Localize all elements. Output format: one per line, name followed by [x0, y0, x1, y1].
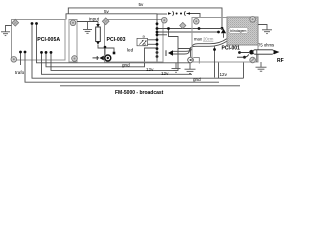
bus node y39.8 [156, 38, 159, 41]
wire shield arc to cable end [245, 54, 249, 57]
connector CN2 shell [184, 11, 185, 16]
svg-text:gnd: gnd [122, 63, 130, 68]
wire strip to input fuse [77, 21, 98, 23]
bus node y32 [156, 31, 159, 34]
board PCI-003 outline [105, 20, 164, 63]
bus stub y34.8 [157, 34, 167, 36]
node G supply 3 [50, 51, 53, 54]
ground GND1 at far left [1, 26, 12, 36]
wire W2 inter-board lower [157, 31, 219, 33]
coax cable lower line [173, 41, 227, 54]
ground GND4 bottom right [256, 62, 267, 71]
title box top line [60, 85, 240, 87]
wire from RF link connector right into PCI-001 [187, 14, 201, 18]
blindagem label patch [229, 28, 248, 34]
screw S9 circle top-left PCI-001 [194, 19, 200, 25]
pad terminal on PCI-003 [113, 52, 116, 55]
ground GND3 right of blindagem [258, 25, 272, 34]
board PCI-001 outline [192, 18, 258, 63]
node L centre pin joint [238, 51, 241, 54]
svg-text:RF: RF [277, 58, 284, 64]
screw S4 circle top of strip [70, 20, 76, 26]
75 ohm cable body [253, 50, 274, 54]
connector J1 input plug [93, 46, 111, 61]
screw S1 diamond top-left of PCI-005A [12, 19, 19, 26]
node C trafo left [19, 51, 22, 54]
svg-text:gnd: gnd [193, 77, 201, 82]
svg-text:5v: 5v [139, 2, 145, 7]
bus node y34.8 [156, 33, 159, 36]
wire supply 2 to rail 2 [46, 48, 157, 67]
svg-text:75 ohms: 75 ohms [258, 43, 274, 48]
wire pin P1 stem [223, 33, 225, 38]
wire trafo left [20, 52, 22, 65]
svg-text:PCI-001: PCI-001 [222, 45, 241, 51]
fuse F1 body [96, 27, 101, 42]
svg-text:12v: 12v [220, 72, 228, 77]
bus node y44.3 [156, 43, 159, 46]
connector CN1 pin dot [176, 13, 178, 15]
wire W1 inter-board upper [157, 28, 222, 30]
wire trafo right to rail 6 [25, 52, 219, 82]
75 ohm cable RF arrow tip [274, 50, 280, 54]
node A [31, 22, 34, 25]
node M shield joint [243, 56, 246, 59]
node K on that wire [213, 48, 216, 51]
pin arrow P1 under 5v drop [221, 29, 226, 34]
svg-text:max 20cm: max 20cm [194, 37, 214, 42]
ground GND2 in input area [83, 22, 92, 34]
node H on riser x155 [156, 55, 159, 58]
svg-text:led: led [127, 48, 134, 53]
wire led lead a [148, 39, 158, 41]
node on W2 at x218.5 [217, 31, 220, 34]
ground GND5 under PCI-003 small [172, 63, 181, 73]
node on W1 drop [167, 27, 170, 30]
screw S6 circle top-right PCI-003 [162, 17, 168, 23]
wire supply 1 to rail 4 [42, 52, 193, 74]
svg-text:trafo: trafo [15, 70, 25, 75]
wire riser branch to screw S8 [178, 49, 191, 57]
fuse F1 bottom contact arrow [96, 42, 100, 45]
coax cable upper line [173, 39, 227, 52]
led D1 symbol box [137, 38, 148, 46]
screw S5 circle bottom of strip [72, 56, 78, 62]
wire led lead b [148, 43, 158, 45]
svg-text:input: input [89, 16, 100, 21]
screw S11 circle near RF output [250, 57, 256, 63]
svg-text:12v: 12v [161, 71, 169, 76]
wire 5v rail upper [68, 8, 222, 28]
wire riser right end of rail 5 [243, 62, 245, 78]
svg-text:PCI-003: PCI-003 [107, 37, 126, 43]
svg-text:blindagem: blindagem [230, 29, 246, 33]
screw S8 circle below cable start [188, 57, 200, 63]
wire under cable to board edge [256, 50, 258, 63]
svg-text:a: a [143, 33, 146, 38]
bus node y48.6 [156, 47, 159, 50]
wire 5v rail lower with bus drop [66, 14, 157, 62]
connector CN2 pin dot [180, 13, 182, 15]
wire supply 3 to rail 3 [51, 52, 178, 70]
screw S7 diamond between boards [180, 22, 186, 28]
wire from node A to bottom rail 5 [32, 24, 244, 79]
bus node y28.5 [156, 27, 159, 30]
screw S3 diamond top-left of PCI-003 [102, 18, 109, 25]
svg-text:FM-5000 - broadcast: FM-5000 - broadcast [115, 90, 164, 96]
node F supply 2 [45, 51, 48, 54]
led D1 arrow heads [142, 40, 144, 42]
wire shield lead [237, 56, 245, 58]
screw S10 circle on blindagem top-right [250, 17, 256, 23]
wire drop from W1 to riser x178 [169, 29, 179, 71]
wire riser 12v under PCI-001 [218, 62, 220, 78]
node on W1 at x199 [198, 27, 201, 30]
wire input fuse bottom lead into PCI-003 [98, 45, 114, 52]
fuse F1 top contact arrow [96, 24, 100, 27]
node D trafo right [24, 51, 27, 54]
ground GND6 under PCI-001 left [185, 63, 196, 74]
wire from node B to gnd rail 1 [37, 24, 191, 63]
connector CN1 shell [173, 11, 174, 16]
connector CN2 male arrow [187, 12, 190, 14]
svg-text:5v: 5v [104, 9, 110, 14]
board PCI-005A outline [12, 20, 66, 61]
svg-text:12v: 12v [146, 67, 154, 72]
wire centre pin to cable end [240, 52, 250, 54]
connector CN1 male arrow [168, 12, 171, 14]
75 ohm cable left connector blob [249, 50, 254, 55]
wire input fuse top lead [97, 22, 99, 26]
blindagem shield box [227, 17, 258, 45]
connector strip box [69, 20, 77, 63]
wire down from coax inside PCI-001 [214, 47, 216, 78]
svg-text:PCI-005A: PCI-005A [37, 37, 60, 43]
connector J2 output plug arrow [166, 50, 173, 56]
screw S2 circle bottom-left of PCI-005A [11, 57, 17, 63]
wire to RF link connector left [157, 13, 167, 15]
node B [35, 22, 38, 25]
bus node y23.8 [156, 22, 159, 25]
node J on 5v drop [221, 27, 224, 30]
node E supply 1 [40, 51, 43, 54]
